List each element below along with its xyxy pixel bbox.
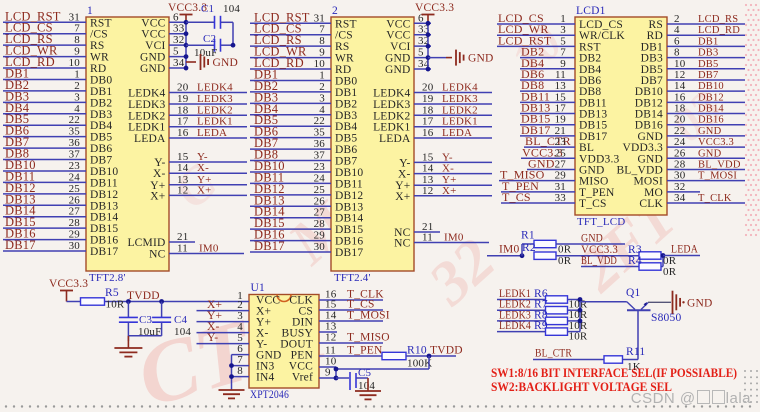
svg-text:20: 20 — [422, 82, 434, 94]
svg-text:VCC: VCC — [386, 18, 410, 30]
svg-text:GND: GND — [687, 297, 713, 309]
svg-text:C4: C4 — [174, 314, 188, 326]
svg-text:19: 19 — [422, 93, 434, 105]
svg-text:/CS: /CS — [335, 30, 353, 42]
wire LCD_RST to pin 31 of TFT2.4' — [250, 10, 331, 24]
svg-text:DB11: DB11 — [579, 97, 607, 109]
svg-text:RS: RS — [335, 41, 349, 53]
svg-text:0R: 0R — [558, 244, 572, 256]
svg-text:3: 3 — [560, 24, 566, 36]
svg-text:X-: X- — [442, 163, 454, 175]
svg-text:11: 11 — [422, 232, 433, 244]
svg-text:DB7: DB7 — [90, 155, 112, 167]
note SW1 interface select — [491, 365, 737, 380]
svg-text:DB2: DB2 — [90, 97, 112, 109]
svg-text:X+: X+ — [150, 190, 165, 202]
wire DB15 to pin 19 of LCD1 — [520, 112, 575, 126]
wire Y- pin 15 of TFT2.8' — [169, 151, 247, 163]
wire LEDA pin 16 of TFT2.8' — [169, 127, 247, 139]
wire DB1 pin 6 of LCD1 — [667, 35, 745, 47]
wire T_MOSI U1 pin 14 — [319, 310, 390, 322]
svg-text:15: 15 — [422, 151, 434, 163]
wire DB14 to pin 27 of TFT2.8' — [3, 204, 86, 218]
TFT2.8' inner left pin names — [90, 17, 118, 258]
resistor R9 10R (LEDK4) — [497, 320, 588, 343]
wire pin 33 (VCC) of TFT2.8' — [169, 23, 186, 35]
svg-text:11: 11 — [177, 243, 188, 255]
wire DB16 to pin 29 of TFT2.8' — [3, 227, 86, 241]
svg-text:XPT2046: XPT2046 — [250, 389, 289, 401]
wire DB6 to pin 35 of TFT2.4' — [250, 125, 331, 139]
wire LEDK3 pin 19 of TFT2.4' — [414, 93, 492, 105]
wire U1 pin 10 — [319, 356, 337, 368]
U1 inner pin names — [256, 295, 313, 384]
wire GND to pin 27 of LCD1 — [527, 156, 575, 170]
wire Y+ pin 13 of TFT2.4' — [414, 174, 492, 186]
svg-text:C5: C5 — [358, 367, 372, 379]
svg-text:S8050: S8050 — [651, 312, 681, 324]
wire DB3 to pin 3 of TFT2.4' — [250, 90, 331, 104]
resistor R3 0R — [628, 244, 677, 267]
wire LEDK1 pin 17 of TFT2.8' — [169, 116, 247, 128]
node TVDD (right of R10) — [406, 345, 463, 359]
wire VCC3.3 net (R2 to R3) — [556, 244, 639, 256]
wire LEDK4 pin 20 of TFT2.4' — [414, 82, 492, 94]
svg-text:DB13: DB13 — [90, 200, 118, 212]
TFT2.8' inner right pin names — [127, 17, 166, 260]
svg-text:DB16: DB16 — [90, 235, 118, 247]
svg-text:VCC: VCC — [141, 17, 165, 29]
wire GND pin 26 of LCD1 — [667, 147, 745, 159]
svg-text:DB1: DB1 — [90, 86, 112, 98]
wire pin 21 of TFT2.4' — [414, 221, 440, 233]
gray dot grid lower right corner — [744, 370, 758, 403]
power VCC3.3 (chip1) — [168, 2, 207, 22]
wire DB13 to pin 17 of LCD1 — [520, 101, 575, 115]
wire T_MOSI pin 30 of LCD1 — [667, 170, 745, 182]
svg-text:30: 30 — [69, 240, 81, 252]
ground (chip1 top) — [186, 54, 238, 70]
wire Y- pin 15 of TFT2.4' — [414, 151, 492, 163]
ground (Q1 emitter) — [673, 291, 713, 314]
wire GND pin 22 of LCD1 — [667, 125, 745, 137]
wire pin 32 (VCI) of TFT2.8' — [169, 34, 186, 46]
wire LEDK2 pin 18 of TFT2.4' — [414, 104, 492, 116]
wire DB4 to pin 4 of TFT2.8' — [3, 101, 86, 115]
wire pin 6 (VCC) of TFT2.8' — [169, 11, 186, 23]
svg-text:T_CS: T_CS — [502, 190, 531, 204]
svg-text:25: 25 — [555, 147, 567, 159]
wire DB11 to pin 24 of TFT2.8' — [3, 169, 86, 183]
resistor R7 10R (LEDK2) — [497, 299, 588, 322]
wire U1 pin 6 GND — [232, 343, 250, 355]
svg-text:LEDK1: LEDK1 — [442, 116, 478, 128]
svg-text:BL_VDD: BL_VDD — [698, 159, 741, 170]
wire DB3 to pin 3 of TFT2.8' — [3, 89, 86, 103]
svg-text:DB1: DB1 — [698, 36, 718, 47]
svg-text:17: 17 — [422, 116, 434, 128]
wire X- pin 14 of TFT2.4' — [414, 163, 492, 175]
wire pin 5 (GND) of TFT2.4' — [414, 47, 431, 59]
junction pins 9/10 — [334, 367, 339, 381]
wire BL_VDD net to R4 — [581, 255, 639, 267]
svg-text:NC: NC — [149, 249, 166, 261]
svg-text:24: 24 — [314, 172, 326, 184]
svg-text:BL_CTR: BL_CTR — [535, 348, 572, 360]
svg-text:DB17: DB17 — [335, 247, 363, 259]
wire LCD_CS to pin 7 of TFT2.8' — [3, 21, 86, 35]
svg-text:Y-: Y- — [399, 157, 410, 169]
svg-text:4: 4 — [74, 103, 80, 115]
wire Q1 emitter to ground — [648, 301, 671, 303]
svg-text:/CS: /CS — [90, 29, 108, 41]
svg-text:GND: GND — [385, 53, 411, 65]
svg-text:RST: RST — [335, 18, 357, 30]
wire DB12 pin 16 of LCD1 — [667, 91, 745, 103]
svg-text:VCI: VCI — [390, 41, 410, 53]
wire DB7 to pin 36 of TFT2.4' — [250, 136, 331, 150]
svg-text:VCC: VCC — [386, 30, 410, 42]
wire X- pin 14 of TFT2.8' — [169, 162, 247, 174]
svg-text:GND: GND — [140, 63, 166, 75]
svg-text:TVDD: TVDD — [430, 345, 463, 357]
svg-text:LEDK4: LEDK4 — [373, 88, 410, 100]
wire DB3 pin 8 of LCD1 — [667, 47, 745, 59]
svg-text:RST: RST — [90, 17, 112, 29]
resistor R6 10R (LEDK1) — [497, 288, 588, 311]
wire DB2 to pin 2 of TFT2.4' — [250, 79, 331, 93]
capacitor C3 10uF — [119, 302, 162, 342]
capacitor C4 104 — [128, 302, 191, 339]
wire DB5 to pin 22 of TFT2.4' — [250, 113, 331, 127]
wire DB10 to pin 23 of TFT2.4' — [250, 159, 331, 173]
svg-text:RD: RD — [647, 30, 663, 42]
designator 2 — [332, 5, 338, 17]
svg-text:LEDK2: LEDK2 — [373, 110, 410, 122]
svg-text:LCD_RD: LCD_RD — [698, 25, 740, 36]
svg-text:BL_VDD: BL_VDD — [581, 255, 617, 267]
svg-text:8: 8 — [319, 35, 325, 47]
wire DB2 to pin 2 of TFT2.8' — [3, 78, 86, 92]
svg-text:2: 2 — [332, 5, 338, 17]
svg-text:X-: X- — [153, 168, 166, 180]
svg-text:14: 14 — [177, 162, 189, 174]
svg-text:37: 37 — [314, 150, 326, 162]
svg-text:GND: GND — [698, 126, 722, 137]
svg-text:WR/CLK: WR/CLK — [579, 30, 625, 42]
wire joining C1/C2 right plates — [231, 22, 236, 47]
svg-text:4: 4 — [319, 104, 325, 116]
svg-text:29: 29 — [314, 230, 326, 242]
svg-text:DB15: DB15 — [335, 224, 363, 236]
sheet symbol 2 TFT2.4' body — [331, 17, 414, 271]
svg-text:DB8: DB8 — [579, 86, 601, 98]
svg-text:LCD_CS: LCD_CS — [579, 19, 623, 31]
svg-text:DB7: DB7 — [335, 156, 357, 168]
vcc junction column chip1 — [184, 20, 189, 71]
wire T_CS U1 pin 15 — [319, 299, 383, 311]
power VCC3.3 (chip2) — [415, 2, 454, 23]
wire LCD_RD to pin 10 of TFT2.8' — [3, 55, 86, 69]
wire DB8 to pin 13 of LCD1 — [520, 78, 575, 92]
wire DB4 to pin 9 of LCD1 — [520, 56, 575, 70]
svg-text:LEDK3: LEDK3 — [442, 93, 478, 105]
wire IM0 pin 11 of TFT2.8' — [169, 243, 244, 255]
svg-text:9: 9 — [74, 46, 80, 58]
wire pin 33 (VCC) of TFT2.4' — [414, 24, 431, 36]
svg-text:28: 28 — [314, 218, 326, 230]
wire T_MISO U1 pin 12 — [319, 332, 390, 344]
svg-text:X-: X- — [398, 169, 411, 181]
svg-text:DB14: DB14 — [335, 213, 363, 225]
part name XPT2046 — [250, 389, 289, 401]
wire pin 32 (VCI) of TFT2.4' — [414, 35, 431, 47]
svg-text:31: 31 — [314, 12, 325, 24]
svg-text:3: 3 — [74, 91, 80, 103]
svg-text:R5: R5 — [105, 287, 119, 299]
svg-text:Y-: Y- — [197, 151, 208, 163]
svg-text:GND: GND — [140, 52, 166, 64]
node TVDD (left) — [126, 290, 164, 304]
svg-text:WR: WR — [335, 53, 354, 65]
svg-text:T_PEN: T_PEN — [347, 345, 383, 357]
wire LCD_CS to pin 1 of LCD1 — [497, 11, 575, 25]
wire LCD_RD to pin 10 of TFT2.4' — [250, 56, 331, 70]
wire DB2 to pin 7 of LCD1 — [520, 45, 575, 59]
svg-text:X-: X- — [197, 162, 209, 174]
svg-text:LEDK4: LEDK4 — [128, 88, 165, 100]
wire VCC3.3 to pin 25 of LCD1 — [521, 145, 575, 159]
svg-text:T_MISO: T_MISO — [347, 332, 390, 344]
svg-text:GND: GND — [213, 57, 239, 69]
wire LCD_RS pin 2 of LCD1 — [667, 13, 745, 25]
svg-text:VCC3.3: VCC3.3 — [698, 137, 734, 148]
svg-text:10R: 10R — [569, 331, 588, 343]
svg-text:28: 28 — [674, 158, 686, 170]
svg-text:26: 26 — [314, 195, 326, 207]
svg-text:DB17: DB17 — [5, 238, 36, 252]
svg-text:GND: GND — [579, 164, 605, 176]
wire Y+ to U1 pin 3 — [197, 310, 250, 322]
sheet name TFT2.8' — [89, 272, 126, 284]
wire DB11 to pin 15 of LCD1 — [520, 89, 575, 103]
svg-text:23: 23 — [69, 160, 81, 172]
svg-text:DB10: DB10 — [90, 166, 118, 178]
svg-text:LEDK4: LEDK4 — [499, 320, 531, 332]
designator 1 — [87, 5, 93, 17]
svg-text:DB16: DB16 — [698, 115, 724, 126]
svg-text:8: 8 — [74, 34, 80, 46]
svg-text:17: 17 — [177, 116, 189, 128]
wire DB4 to pin 4 of TFT2.4' — [250, 102, 331, 116]
wire DB8 to pin 37 of TFT2.4' — [250, 148, 331, 162]
wire pin 34 (GND) of TFT2.4' — [414, 58, 431, 70]
svg-text:DB6: DB6 — [90, 143, 112, 155]
ground (chip2 top) — [428, 50, 494, 66]
svg-text:104: 104 — [223, 3, 240, 15]
wire DB17 to pin 30 of TFT2.4' — [250, 239, 331, 253]
svg-text:22: 22 — [69, 114, 80, 126]
svg-text:DB11: DB11 — [90, 177, 118, 189]
IC U1 XPT2046 body — [249, 295, 319, 389]
wire TVDD down to pin10 rail — [336, 356, 429, 369]
svg-text:20: 20 — [177, 82, 189, 94]
wire pin 32 pin 32 of LCD1 — [667, 181, 700, 193]
wire DB16 to pin 29 of TFT2.4' — [250, 228, 331, 242]
svg-text:27: 27 — [314, 207, 326, 219]
svg-text:36: 36 — [69, 137, 81, 149]
svg-text:10R: 10R — [106, 299, 125, 311]
svg-text:RD: RD — [90, 63, 106, 75]
svg-text:IM0: IM0 — [199, 243, 219, 255]
svg-text:TFT2.4': TFT2.4' — [334, 272, 371, 284]
wire IM0 pin 11 of TFT2.4' — [414, 232, 489, 244]
svg-text:15: 15 — [555, 91, 567, 103]
wire DB13 to pin 26 of TFT2.4' — [250, 193, 331, 207]
svg-text:U1: U1 — [251, 282, 266, 294]
svg-text:21: 21 — [177, 231, 188, 243]
svg-text:T_MOSI: T_MOSI — [698, 171, 737, 182]
LCD1 inner pin names — [579, 19, 663, 210]
svg-text:LEDA: LEDA — [379, 133, 411, 145]
svg-text:26: 26 — [69, 194, 81, 206]
svg-text:LEDK3: LEDK3 — [373, 99, 410, 111]
svg-text:C3: C3 — [139, 314, 153, 326]
svg-text:LEDK1: LEDK1 — [128, 122, 165, 134]
svg-text:Y-: Y- — [442, 151, 453, 163]
svg-text:2: 2 — [674, 13, 680, 25]
svg-text:VDD3.3: VDD3.3 — [579, 153, 620, 165]
wire LEDK3 pin 19 of TFT2.8' — [169, 93, 247, 105]
svg-text:R4: R4 — [628, 255, 642, 267]
svg-text:33: 33 — [555, 192, 567, 204]
wire LEDK rail to Q1 collector — [580, 301, 627, 303]
svg-text:33: 33 — [173, 23, 185, 35]
capacitor C5 104 — [336, 367, 375, 392]
svg-text:X+: X+ — [197, 184, 212, 196]
svg-text:DB5: DB5 — [335, 133, 357, 145]
svg-text:LEDK1: LEDK1 — [373, 122, 410, 134]
svg-text:DB15: DB15 — [90, 223, 118, 235]
connector LCD1 TFT_LCD body — [575, 17, 667, 215]
wire U1 pin 8 IN4 — [232, 365, 250, 377]
resistor R4 0R — [628, 255, 677, 278]
svg-text:LEDK4: LEDK4 — [442, 82, 478, 94]
svg-text:X+: X+ — [442, 185, 457, 197]
wire DB15 to pin 28 of TFT2.4' — [250, 216, 331, 230]
wire LEDK2 pin 18 of TFT2.8' — [169, 104, 247, 116]
ground (U1 left) — [219, 390, 245, 398]
svg-text:DB5: DB5 — [698, 59, 718, 70]
svg-text:28: 28 — [69, 217, 81, 229]
svg-text:15: 15 — [177, 151, 189, 163]
svg-text:LEDA: LEDA — [134, 133, 166, 145]
svg-text:DB3: DB3 — [698, 48, 718, 59]
wire LEDK4 pin 20 of TFT2.8' — [169, 82, 247, 94]
svg-text:DB11: DB11 — [335, 178, 363, 190]
svg-text:DB4: DB4 — [90, 120, 112, 132]
svg-text:GND: GND — [581, 233, 603, 245]
svg-text:25: 25 — [314, 184, 326, 196]
wire T_CLK pin 34 of LCD1 — [667, 192, 745, 204]
svg-text:LEDK1: LEDK1 — [197, 116, 233, 128]
wire Y+ pin 13 of TFT2.8' — [169, 174, 247, 186]
svg-text:LCD1: LCD1 — [576, 5, 606, 17]
wire GND net label (R1) — [556, 233, 625, 245]
svg-text:T_CLK: T_CLK — [698, 193, 732, 204]
svg-text:GND: GND — [698, 148, 722, 159]
sheet name TFT_LCD — [577, 216, 625, 228]
svg-text:VCC: VCC — [141, 29, 165, 41]
ground (C3/C4) — [114, 336, 142, 357]
svg-text:LEDK3: LEDK3 — [197, 93, 233, 105]
svg-text:LEDK3: LEDK3 — [128, 99, 165, 111]
svg-text:LEDK2: LEDK2 — [197, 104, 233, 116]
svg-text:2: 2 — [74, 80, 80, 92]
svg-text:DB3: DB3 — [335, 110, 357, 122]
svg-text:DB17: DB17 — [254, 239, 285, 253]
svg-text:35: 35 — [314, 127, 326, 139]
svg-text:4: 4 — [674, 24, 680, 36]
wire LCD_RST to pin 5 of LCD1 — [497, 33, 575, 47]
svg-text:LEDK4: LEDK4 — [197, 82, 233, 94]
junction column pins 6-8 to ground — [229, 355, 234, 390]
svg-text:31: 31 — [69, 11, 80, 23]
wire LCD_WR to pin 3 of LCD1 — [497, 22, 575, 36]
wire U1 pin 9 — [319, 367, 336, 379]
note SW2 backlight select — [491, 379, 672, 394]
faint pink site watermark strokes — [127, 16, 732, 412]
wire T_MISO to pin 29 of LCD1 — [499, 168, 575, 182]
svg-text:DB14: DB14 — [90, 212, 118, 224]
svg-text:1: 1 — [319, 69, 325, 81]
svg-text:DB2: DB2 — [335, 98, 357, 110]
svg-text:14: 14 — [422, 163, 434, 175]
svg-text:18: 18 — [422, 104, 434, 116]
svg-text:NC: NC — [394, 238, 411, 250]
svg-text:9: 9 — [319, 47, 325, 59]
wire DB5 pin 10 of LCD1 — [667, 58, 745, 70]
svg-text:7: 7 — [74, 23, 80, 35]
svg-text:LEDK2: LEDK2 — [128, 110, 165, 122]
svg-text:R11: R11 — [626, 346, 645, 358]
wire T_PEN U1 pin 11 to R10 — [319, 345, 383, 357]
svg-text:5: 5 — [418, 47, 424, 59]
wire X- to U1 pin 4 — [197, 321, 250, 333]
svg-text:LEDA: LEDA — [671, 244, 698, 256]
wire LCD_WR to pin 9 of TFT2.8' — [3, 44, 86, 58]
svg-text:0R: 0R — [558, 255, 572, 267]
capacitor C1 104 — [186, 3, 240, 29]
svg-text:16: 16 — [674, 91, 686, 103]
svg-text:DB4: DB4 — [335, 121, 357, 133]
svg-text:DB14: DB14 — [698, 104, 724, 115]
svg-text:24: 24 — [69, 171, 81, 183]
svg-text:DB7: DB7 — [698, 70, 718, 81]
svg-text:12: 12 — [325, 332, 336, 344]
wire DB8 to pin 37 of TFT2.8' — [3, 147, 86, 161]
svg-text:X+: X+ — [395, 191, 410, 203]
svg-text:0R: 0R — [663, 266, 677, 278]
svg-text:12: 12 — [177, 184, 188, 196]
svg-text:LCD_RS: LCD_RS — [698, 14, 738, 25]
wire DB12 to pin 25 of TFT2.4' — [250, 182, 331, 196]
svg-text:Vref: Vref — [292, 372, 313, 384]
svg-text:2: 2 — [319, 81, 325, 93]
svg-text:IN4: IN4 — [256, 372, 275, 384]
svg-text:Q1: Q1 — [626, 287, 641, 299]
pink halftone dots right edge — [745, 4, 760, 236]
